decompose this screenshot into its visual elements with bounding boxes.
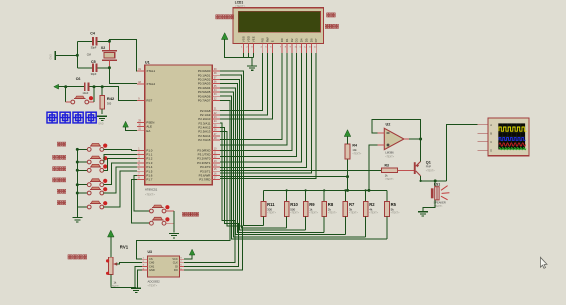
svg-text:CH0: CH0 bbox=[149, 261, 155, 265]
wire ladder top rail bbox=[264, 189, 388, 191]
red annotation: volume adjust bbox=[68, 255, 87, 259]
svg-text:LS1: LS1 bbox=[434, 182, 440, 186]
svg-text:R8: R8 bbox=[328, 202, 334, 207]
svg-text:DO: DO bbox=[174, 268, 178, 272]
node collector corner bbox=[420, 180, 422, 182]
svg-text:D0: D0 bbox=[280, 38, 284, 42]
svg-text:PNP: PNP bbox=[426, 165, 432, 169]
red label for key3 bbox=[53, 167, 66, 171]
wire LCD RS to P2.0 bbox=[220, 53, 263, 110]
potentiometer RV1 bbox=[106, 236, 142, 288]
svg-text:R42: R42 bbox=[107, 96, 115, 101]
svg-text:AT89C51: AT89C51 bbox=[145, 188, 158, 192]
svg-text:C5: C5 bbox=[91, 60, 96, 64]
svg-text:C6: C6 bbox=[76, 77, 81, 81]
push button key2 bbox=[77, 156, 107, 164]
push button key5 bbox=[77, 187, 116, 195]
svg-text:U2: U2 bbox=[386, 122, 391, 126]
node button bus junction 3 bbox=[76, 169, 79, 172]
node rail junction R2 bbox=[365, 189, 367, 191]
wire C4-C5 left link bbox=[76, 41, 78, 68]
svg-text:GND: GND bbox=[50, 54, 53, 60]
svg-text:D6: D6 bbox=[309, 38, 313, 42]
node reset-right junction bbox=[93, 85, 96, 88]
resistor R3 bbox=[382, 164, 414, 181]
svg-text:<TEXT>: <TEXT> bbox=[235, 4, 246, 8]
node XTAL2 junction bbox=[108, 66, 111, 69]
wire P2.4 to ADC DI bbox=[184, 127, 239, 266]
blue annotation: reset button label bbox=[47, 112, 96, 123]
svg-text:D: D bbox=[490, 148, 492, 152]
wire key3 to P1.2 bbox=[104, 159, 137, 171]
wire ADC GND to ground node bbox=[137, 270, 142, 287]
svg-text:D4: D4 bbox=[300, 38, 304, 42]
node plus-rail junction bbox=[367, 189, 370, 192]
op-amp U2 bbox=[377, 122, 409, 158]
svg-text:<TEXT>: <TEXT> bbox=[369, 212, 379, 215]
node button bus junction 2 bbox=[76, 161, 79, 164]
red annotation right of LCD (line1) bbox=[327, 13, 336, 17]
svg-text:10k: 10k bbox=[352, 148, 357, 152]
ground below speaker bbox=[418, 211, 428, 213]
svg-text:30pF: 30pF bbox=[91, 45, 97, 49]
node reset-left junction bbox=[64, 85, 67, 88]
resistor R9 bbox=[303, 190, 318, 230]
svg-text:P1.7: P1.7 bbox=[146, 178, 152, 182]
speaker LS1 bbox=[431, 181, 450, 208]
svg-text:XTAL2: XTAL2 bbox=[146, 82, 155, 86]
wire P0.1 to ladder resistor 2 bbox=[220, 75, 287, 228]
wire P0.5 to ladder resistor 6 bbox=[220, 92, 366, 237]
svg-text:<TEXT>: <TEXT> bbox=[309, 212, 319, 215]
svg-text:P2.7/A15: P2.7/A15 bbox=[198, 138, 210, 142]
node rail junction R10 bbox=[286, 189, 288, 191]
wire P1.7 to test button 2 bbox=[132, 180, 150, 224]
node button bus junction 1 bbox=[76, 148, 79, 151]
svg-text:B: B bbox=[490, 131, 492, 135]
wire button bus to ground bbox=[76, 149, 78, 216]
svg-text:DI: DI bbox=[175, 264, 178, 268]
svg-text:U1: U1 bbox=[145, 60, 150, 64]
svg-text:CM: CM bbox=[87, 53, 91, 57]
capacitor C5 bbox=[77, 60, 109, 76]
ground below R42 bbox=[97, 116, 107, 125]
push button reset bbox=[66, 87, 94, 104]
red label for key5 bbox=[57, 189, 65, 193]
mouse cursor bbox=[540, 257, 547, 268]
node R4 junction bbox=[346, 175, 349, 178]
resistor R42 bbox=[100, 85, 115, 114]
push button key4 bbox=[77, 179, 111, 187]
wire LCD D3 data bus bbox=[220, 53, 297, 156]
svg-text:CH1: CH1 bbox=[149, 264, 155, 268]
svg-text:<TEXT>: <TEXT> bbox=[426, 169, 436, 172]
microcontroller U1 AT89C51 bbox=[137, 60, 220, 196]
svg-text:D5: D5 bbox=[305, 38, 309, 42]
wire reset node to RST bbox=[102, 87, 137, 101]
svg-text:R9: R9 bbox=[309, 202, 315, 207]
power terminal left (reset) bbox=[54, 84, 66, 89]
ground terminal left of crystal bbox=[50, 51, 78, 60]
wire P0.6 to ladder resistor 7 bbox=[220, 96, 387, 239]
wire key2 to P1.1 bbox=[104, 155, 137, 163]
power terminal for LCD VDD bbox=[221, 33, 253, 58]
push button test2 bbox=[150, 217, 175, 225]
push button key3 bbox=[77, 164, 107, 172]
svg-text:<TEXT>: <TEXT> bbox=[385, 156, 395, 159]
red annotation right of LCD (line2) bbox=[325, 24, 338, 28]
LCD LCD1 (LM016L) bbox=[233, 1, 323, 54]
wire P0.0 to ladder resistor 1 bbox=[220, 71, 263, 226]
svg-text:R7: R7 bbox=[349, 202, 355, 207]
power terminal for U3 VCC bbox=[184, 249, 195, 259]
red label for key4 bbox=[53, 178, 66, 182]
resistor R10 bbox=[284, 190, 299, 228]
svg-text:D1: D1 bbox=[285, 38, 289, 42]
wire key4 to P1.3 bbox=[104, 163, 137, 185]
svg-text:RS: RS bbox=[261, 38, 265, 42]
wire RV1 bottom to ground bbox=[111, 286, 136, 288]
ground below test buttons bbox=[169, 232, 179, 234]
svg-text:VSS: VSS bbox=[241, 36, 245, 42]
capacitor C4 bbox=[77, 31, 109, 49]
wire LCD D4 data bus bbox=[220, 53, 302, 162]
svg-text:U3: U3 bbox=[148, 250, 152, 254]
wire speaker node to scope channel A bbox=[446, 125, 477, 181]
svg-text:R10: R10 bbox=[290, 202, 298, 207]
svg-text:<TEXT>: <TEXT> bbox=[148, 284, 158, 288]
resistor R8 bbox=[322, 190, 337, 232]
svg-text:<TEXT>: <TEXT> bbox=[349, 212, 359, 215]
wire LCD D2 data bus bbox=[220, 53, 292, 151]
svg-text:D3: D3 bbox=[295, 38, 299, 42]
node R4 rail junction bbox=[346, 189, 349, 192]
svg-text:XTAL1: XTAL1 bbox=[146, 69, 155, 73]
wire P2.3 to ADC CLK bbox=[184, 123, 235, 263]
svg-text:D7: D7 bbox=[314, 38, 318, 42]
red annotation: test label bbox=[182, 212, 198, 216]
node button bus junction 4 bbox=[76, 183, 79, 186]
wire U2 feedback loop bbox=[372, 120, 420, 139]
svg-text:RST: RST bbox=[146, 99, 152, 103]
svg-text:GND: GND bbox=[149, 268, 155, 272]
resistor R7 bbox=[343, 190, 358, 234]
wire test buttons to ground bbox=[173, 211, 175, 233]
svg-text:<TEXT>: <TEXT> bbox=[391, 212, 401, 215]
svg-text:E: E bbox=[270, 40, 274, 42]
svg-text:VCC: VCC bbox=[172, 257, 178, 261]
wire U2 plus input to ladder rail bbox=[369, 145, 378, 191]
svg-text:30pF: 30pF bbox=[91, 72, 97, 76]
push button key1 bbox=[77, 144, 131, 152]
wire chip to R4 bottom bbox=[220, 176, 347, 178]
oscilloscope bbox=[478, 118, 530, 156]
node rail junction R7 bbox=[344, 189, 346, 191]
red annotation left of LCD bbox=[216, 15, 234, 19]
svg-text:GND: GND bbox=[98, 124, 103, 126]
node button bus junction 5 bbox=[76, 192, 79, 195]
wire LCD D0 data bus bbox=[220, 53, 282, 139]
transistor Q1 PNP bbox=[414, 161, 436, 176]
svg-text:<TEXT>: <TEXT> bbox=[145, 192, 155, 196]
wire key6 to P1.5 bbox=[104, 171, 137, 207]
red label for key6 bbox=[57, 201, 65, 205]
svg-text:C4: C4 bbox=[90, 31, 95, 35]
resistor R4 bbox=[345, 136, 362, 190]
resistor R5 bbox=[385, 190, 400, 239]
svg-text:<TEXT>: <TEXT> bbox=[267, 212, 277, 215]
svg-text:R4: R4 bbox=[352, 143, 357, 147]
node rail junction R9 bbox=[305, 189, 307, 191]
wire Q1 collector to speaker node bbox=[421, 176, 447, 181]
resistor R2 bbox=[363, 190, 378, 237]
svg-text:300: 300 bbox=[107, 101, 112, 105]
node XTAL1 junction bbox=[108, 40, 111, 43]
svg-text:ADC0832: ADC0832 bbox=[148, 280, 161, 284]
svg-text:<TEXT>: <TEXT> bbox=[328, 212, 338, 215]
wire LCD E to P2.2 bbox=[220, 53, 272, 119]
node U2 output junction bbox=[419, 138, 422, 141]
svg-text:P0.7/AD7: P0.7/AD7 bbox=[198, 99, 211, 103]
svg-text:X2: X2 bbox=[101, 46, 105, 50]
resistor R11 bbox=[261, 190, 276, 225]
svg-text:R2: R2 bbox=[369, 202, 375, 207]
wire P2.5 to ADC DO bbox=[184, 132, 242, 271]
ground for LCD VSS/VEE bbox=[243, 53, 257, 70]
wire P0.2 to ladder resistor 3 bbox=[220, 79, 306, 230]
node crystal-left junction bbox=[76, 54, 79, 57]
power terminal at EA pin bbox=[123, 121, 137, 130]
svg-text:Q1: Q1 bbox=[426, 161, 431, 165]
svg-text:P3.7/RD: P3.7/RD bbox=[199, 178, 210, 182]
wire key1 to P1.0 bbox=[104, 148, 137, 151]
svg-text:CS: CS bbox=[149, 257, 153, 261]
wire P0.4 to ladder resistor 5 bbox=[220, 88, 345, 235]
wire P0.7 to ADC CS (long route) bbox=[136, 100, 229, 259]
wire P0.3 to ladder resistor 4 bbox=[220, 84, 324, 233]
svg-text:LM386: LM386 bbox=[385, 151, 394, 155]
svg-text:<TEXT>: <TEXT> bbox=[385, 178, 395, 181]
wire LCD RW to P2.1 bbox=[220, 53, 268, 115]
ground below RV1/U3 bbox=[131, 287, 141, 289]
wire chip to R3 bbox=[220, 169, 381, 171]
svg-text:R5: R5 bbox=[391, 202, 397, 207]
svg-text:R3: R3 bbox=[385, 164, 389, 168]
wire LCD D6 data bus bbox=[220, 53, 311, 173]
svg-text:VEE: VEE bbox=[252, 36, 256, 42]
power terminal above RV1 bbox=[108, 230, 115, 237]
node speaker junction bbox=[434, 179, 437, 182]
wire crystal to XTAL2 bbox=[109, 68, 136, 84]
wire U2 output bbox=[409, 138, 421, 140]
svg-text:EA: EA bbox=[146, 129, 150, 133]
svg-text:R11: R11 bbox=[267, 202, 275, 207]
wire LCD D1 data bus bbox=[220, 53, 287, 145]
svg-text:C: C bbox=[490, 140, 492, 144]
ground below button column bbox=[72, 217, 82, 219]
wire U2 output to Q1 emitter bbox=[420, 139, 422, 161]
svg-text:VDD: VDD bbox=[247, 35, 251, 42]
wire P1.6 to test button 1 bbox=[134, 175, 150, 211]
wire ADC CH1 to ground node bbox=[135, 266, 142, 287]
svg-text:A: A bbox=[490, 123, 492, 127]
node rail junction R8 bbox=[323, 189, 325, 191]
capacitor C6 bbox=[66, 77, 103, 95]
svg-text:10uF: 10uF bbox=[82, 91, 88, 95]
svg-text:<TEXT>: <TEXT> bbox=[290, 212, 300, 215]
wire LCD D7 data bus bbox=[220, 53, 316, 179]
wire crystal to XTAL1 bbox=[109, 39, 136, 71]
red label for key2 bbox=[53, 155, 66, 159]
svg-text:CLK: CLK bbox=[173, 261, 178, 265]
red label for key1 bbox=[57, 142, 65, 146]
svg-text:RW: RW bbox=[266, 37, 270, 42]
push button test1 bbox=[150, 205, 175, 213]
wire speaker to ground bbox=[423, 200, 435, 211]
crystal X2 bbox=[87, 41, 117, 68]
svg-text:D2: D2 bbox=[290, 38, 294, 42]
wire LCD D5 data bus bbox=[220, 53, 306, 167]
wire key5 to P1.4 bbox=[104, 167, 137, 193]
svg-text:<TEXT>: <TEXT> bbox=[352, 153, 362, 156]
svg-text:RV1: RV1 bbox=[120, 245, 129, 250]
ADC U3 ADC0832 bbox=[142, 250, 184, 288]
push button key6 bbox=[77, 201, 120, 209]
power terminal above R4 bbox=[344, 130, 351, 137]
